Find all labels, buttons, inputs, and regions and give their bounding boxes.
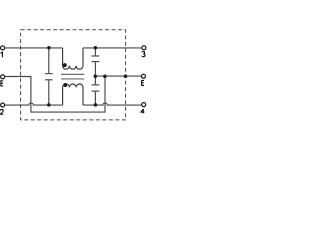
terminal E left [1,75,5,79]
label 3 [142,52,145,57]
polarity dot winding top [63,63,67,67]
choke core line lower [61,78,84,80]
capacitor CX1 (across lines, x=48.8) [45,48,53,105]
choke winding L2 bottom (rises from bottom line, scalloped top) [63,84,83,105]
junction node earth riser [103,74,107,78]
label E left [1,81,3,86]
wire top line right segment (choke to terminal 3) [83,47,142,49]
terminal 3 [142,46,146,50]
wire earth node line to terminal E right [95,75,141,77]
wire earth path: terminal E left, down, rail along bottom, riser up [5,76,105,112]
junction node top-right [94,46,98,50]
capacitor CY2 (earth node to bottom line) [91,76,99,105]
terminal E right [142,74,146,78]
label 2 [0,109,3,114]
label E right [142,80,144,85]
wire top line left segment (terminal 1 to choke) [5,47,63,49]
wire bottom line left segment with crossover hop [5,103,63,105]
junction node earth at box edge [124,74,128,78]
capacitor CY1 (top line to earth node) [91,48,99,76]
label 1 [1,52,3,57]
terminal 2 [1,103,5,107]
choke core line upper [61,73,84,75]
label 4 [141,109,145,114]
junction node top-left [47,46,51,50]
polarity dot winding bottom [63,83,67,87]
junction node bottom-right [94,103,98,107]
terminal 1 [1,46,5,50]
wire bottom line right segment with crossover hop [83,103,142,105]
junction node earth mid [94,74,98,78]
terminal 4 [142,103,146,107]
dashed enclosure box [21,30,126,120]
junction node bottom-left [47,103,51,107]
choke winding L1 top (hangs from top line, scalloped bottom) [63,48,83,69]
